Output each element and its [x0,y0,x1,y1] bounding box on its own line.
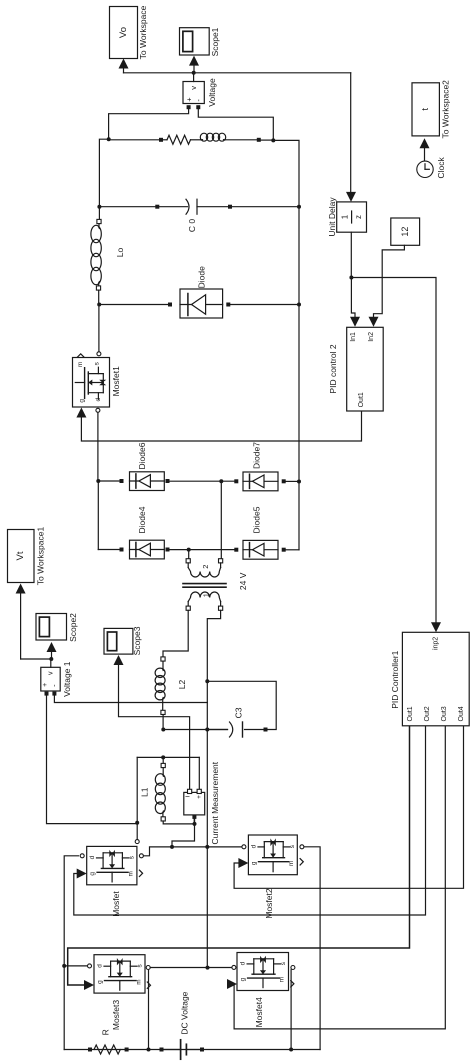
wire: Mosfet3 source to Mosfet4 drain [150,967,231,969]
svg-text:Lo: Lo [115,248,125,258]
svg-text:g: g [240,977,247,981]
wire into Vo with arrowhead [123,66,125,73]
wire: to Vt and Scope2 [21,658,52,660]
wire: AC1 to transformer winding 2 [220,481,222,558]
svg-text:PID control 2: PID control 2 [328,344,338,393]
gate arrow Mosfet4 [227,979,237,989]
wire into Scope3 with arrowhead (current signal) [119,664,190,790]
wire into Scope2 with arrowhead [51,651,53,660]
svg-text:+: + [42,683,49,687]
wire: top rail to C0 branch [99,139,108,207]
port dots of Voltage block [187,105,191,109]
node: Mosfet3 source rail junction [147,1048,151,1052]
node: C0 branch left junction [97,205,101,209]
wire: drain sense wire down to Mosfet [136,757,138,839]
scope Scope1 [180,28,210,55]
svg-text:Voltage: Voltage [207,78,217,107]
wire: L2 to resonant node [162,715,164,730]
wire: winding1 right down (primary leg) [207,610,220,847]
series RL load branch (Ro+Lo) [109,139,159,141]
mosfet Mosfet2 (bridge top-right) [248,835,297,875]
svg-text:In2: In2 [368,332,375,342]
mosfet Mosfet (bridge top-left) [87,846,137,884]
Mosfet1 m port caret [78,354,84,357]
wire: gate drive Mosfet (PID Out2) [74,726,426,915]
node: C3 row tap [205,728,209,732]
svg-text:DC Voltage: DC Voltage [179,991,189,1034]
svg-text:12: 12 [400,227,410,237]
svg-text:Scope2: Scope2 [68,613,78,642]
inductor Lo [98,207,100,220]
gate arrow Mosfet [77,869,87,879]
node: return rail / freewheel diode junction [297,303,301,307]
wire: DC+ to Mosfet3 drain [64,965,87,967]
wire: gate drive for Mosfet1 (from PID control 2 Out1) [81,411,361,441]
svg-text:Current Measurement: Current Measurement [210,761,220,844]
svg-text:24 V: 24 V [238,572,248,590]
diode Diode7 [168,480,235,482]
Mosfet2 ports [242,845,246,849]
svg-text:Diode7: Diode7 [251,442,261,469]
svg-text:Out4: Out4 [458,706,465,721]
wire into Scope1 with arrowhead [193,65,195,73]
diode Diode6 [98,480,119,482]
svg-text:m: m [77,362,84,367]
wire: signal down to Unit Delay [350,73,352,194]
svg-text:1: 1 [340,214,349,219]
wire: 12 to PID control 2 In2 [374,245,405,320]
node: C3 upper tap [205,679,209,683]
svg-text:g: g [97,980,104,984]
svg-text:C3: C3 [233,707,243,718]
wire: AC2 to transformer winding 2 [188,550,190,559]
svg-text:To Workspace: To Workspace [138,5,148,59]
svg-text:2: 2 [201,565,210,569]
wire: Voltage 1 - lead to primary node [54,696,207,703]
node: AC1 tap between Diode6 and Diode7 [219,479,223,483]
svg-text:To Workspace1: To Workspace1 [36,527,46,586]
wire: Voltage 1 + lead [47,696,138,824]
svg-text:Unit Delay: Unit Delay [327,197,337,237]
svg-text:Diode5: Diode5 [251,506,261,533]
node: CM/L1 bottom junction [193,822,197,826]
node: freewheel diode top junction [97,303,101,307]
block PID Controller1 [402,632,469,726]
svg-text:g: g [251,861,258,865]
svg-text:In1: In1 [350,332,357,342]
svg-text:R: R [100,1029,110,1035]
svg-text:Diode6: Diode6 [137,442,147,469]
wire: inp2 feed to PID Controller1 [351,278,436,625]
mosfet Mosfet3 (bridge bottom-left) [94,955,145,993]
svg-text:g: g [89,872,96,876]
svg-text:d: d [251,844,258,848]
svg-text:Out3: Out3 [441,706,448,721]
DC Voltage source battery [160,1048,164,1052]
wire: L1 bottom to CM - node [163,821,194,824]
svg-text:Diode4: Diode4 [137,506,147,533]
wire: DC- bottom rail [64,1049,320,1051]
node: DC- rail / Mosfet4 junction [289,1048,293,1052]
svg-text:v: v [47,671,54,675]
wire: primary leg into Mosfet4 drain [206,847,208,968]
block PID control 2 [347,327,384,411]
svg-text:L1: L1 [139,787,149,797]
svg-text:+: + [196,795,203,799]
svg-text:d: d [89,855,96,859]
svg-text:t: t [420,108,431,111]
wire: Clock to t with arrowhead [424,147,426,161]
svg-text:C 0: C 0 [187,219,197,233]
svg-text:Out2: Out2 [424,706,431,721]
wire: DC+ rail [64,856,78,1050]
wire: Mosfet4 source down to DC- rail [290,970,292,1050]
wire: winding1 left to inductor L2 [163,610,188,656]
wire: Voltage - lead [198,109,273,140]
svg-text:Vo: Vo [118,27,129,38]
svg-text:To Workspace2: To Workspace2 [441,80,451,139]
svg-text:L2: L2 [177,680,187,690]
inductor L1 [162,757,164,763]
svg-text:Out1: Out1 [358,392,365,407]
svg-text:inp2: inp2 [433,637,440,650]
wire: gate drive Mosfet3 (PID Out1) [68,726,410,985]
wire: Lo to Mosfet1 drain [98,290,100,305]
svg-text:Vt: Vt [15,551,26,560]
transformer (linear, 24 V) [186,559,190,563]
inductor L2 [161,657,165,661]
freewheel diode Diode [99,304,167,306]
node: leg B mid junction [206,966,210,970]
CM output stub [192,815,196,819]
node: DC+ rail / Mosfet3 junction [62,964,66,968]
wire: Mosfet1 source to rectifier [96,408,100,412]
node: load branch top junction [107,137,111,141]
block t (To Workspace2) [412,83,439,136]
gate arrow Mosfet2 [238,858,248,868]
block Unit Delay [337,202,367,232]
node: L1 top junction [161,755,165,759]
svg-text:s: s [136,964,143,967]
node: return rail / C0 junction [297,205,301,209]
svg-text:m: m [279,977,286,982]
block Constant 12 [391,218,420,245]
node: return rail / Diode7 junction [297,480,301,484]
diode Diode5 [168,549,235,551]
wire: leg A rail (Mosfet source to Mosfet2 drain) [144,847,242,856]
svg-text:Scope1: Scope1 [210,27,220,56]
svg-text:m: m [127,871,134,876]
node: feedback branch junction [349,276,353,280]
node: AC2 tap between Diode4 and Diode5 [187,548,191,552]
svg-text:PID Controller1: PID Controller1 [390,650,400,708]
node: leg A rail taps [170,845,174,849]
svg-text:v: v [189,86,198,90]
scope Scope3 [104,628,133,654]
resistor R [88,1048,92,1052]
svg-text:m: m [135,979,142,984]
svg-text:+: + [184,97,193,102]
gate arrow Mosfet3 [84,980,94,990]
wire into Vt with arrowhead [20,592,22,659]
mosfet Mosfet1 [73,358,110,408]
block Vt (To Workspace1) [8,530,35,583]
wire: Mosfet3 source to DC source + [148,970,150,1050]
svg-text:m: m [288,861,295,866]
wire: down to CM + port [198,757,200,789]
wire: Mosfet2 source down to DC- rail [304,847,320,1050]
capacitor C3 loop [207,681,276,729]
node: Voltage 1 output junction [49,657,53,661]
svg-text:z: z [354,215,363,219]
Mosfet4 ports [291,966,295,970]
svg-text:Mosfet1: Mosfet1 [111,366,121,397]
node: rectifier DC+ / Diode6 junction [96,479,100,483]
svg-text:i: i [184,796,191,797]
node: L2 / C3 row junction [161,728,165,732]
svg-text:s: s [280,962,287,965]
wire: to PID control 2 In1 [351,278,355,321]
svg-text:s: s [128,856,135,859]
clock Clock [417,161,433,177]
scope Scope2 [36,614,67,641]
svg-text:Mosfet3: Mosfet3 [111,1000,121,1031]
wire: gate drive Mosfet4 (PID Out3) [234,726,445,1029]
wire: Voltage + lead [109,109,189,139]
wire: row to L1 and Current Measurement [137,756,199,758]
svg-text:s: s [94,362,101,365]
Mosfet ports [80,854,84,858]
svg-text:Diode: Diode [196,266,206,288]
svg-text:Mosfet: Mosfet [111,891,121,917]
Mosfet3 ports [88,964,92,968]
svg-text:s: s [289,845,296,848]
svg-text:Clock: Clock [436,157,446,179]
svg-text:g: g [78,399,85,403]
svg-text:d: d [95,397,102,401]
diode Diode4 [98,549,119,551]
wire: Unit Delay output [350,232,352,277]
svg-text:d: d [97,964,104,968]
capacitor C0 branch [99,206,155,208]
svg-text:Out1: Out1 [407,706,414,721]
wire: output voltage signal bus [124,72,351,74]
block Vo (To Workspace) [110,7,138,59]
block Current Measurement [184,792,205,815]
port dots of Voltage 1 [45,692,49,696]
mosfet Mosfet4 (bridge bottom-right) [237,953,289,991]
svg-text:Mosfet2: Mosfet2 [264,888,274,919]
node: Voltage v output junction [192,71,196,75]
node: load branch bottom junction [271,138,275,142]
node: Voltage1 + tap on drain wire [135,821,139,825]
wire: gate drive Mosfet2 (PID Out4) [234,726,463,889]
svg-text:Mosfet4: Mosfet4 [254,997,264,1028]
Voltage 1 output stub [50,659,52,667]
svg-text:d: d [240,961,247,965]
Voltage output stub [193,73,195,82]
svg-text:1: 1 [201,593,210,597]
wire: right return rail [273,140,299,549]
svg-text:Voltage 1: Voltage 1 [62,661,72,697]
block Voltage (voltage measurement) [183,82,204,104]
wire: CM node to bridge leg A [172,824,195,847]
svg-text:Scope3: Scope3 [132,626,142,655]
block Voltage 1 (voltage measurement) [41,667,60,691]
